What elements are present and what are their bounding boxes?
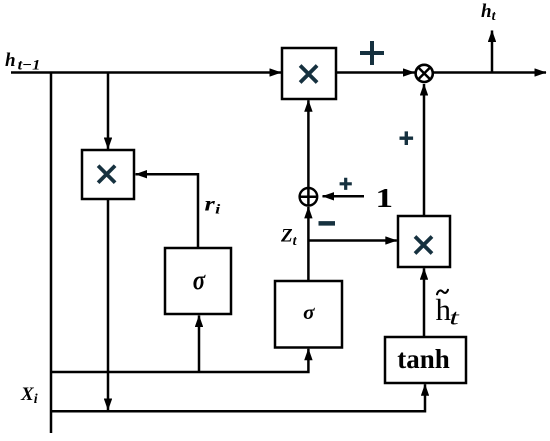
svg-text:t−1: t−1 [18,57,41,73]
svg-text:h: h [5,50,16,71]
svg-text:tanh: tanh [397,344,450,374]
svg-text:t: t [449,305,460,330]
svg-text:1: 1 [376,183,394,213]
svg-text:σ: σ [303,300,315,324]
svg-text:σ: σ [193,266,207,295]
